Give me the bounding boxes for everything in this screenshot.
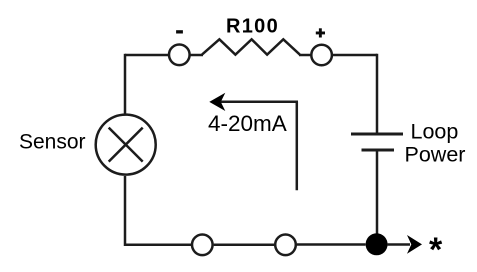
wire: resistor to terminal [299, 54, 311, 57]
svg-text:4-20mA: 4-20mA [208, 111, 287, 136]
svg-text:R100: R100 [226, 16, 279, 38]
wire: right vertical lower (battery to node) [376, 150, 379, 244]
node: junction dot [366, 233, 388, 255]
wire: right vertical upper (corner to battery) [376, 54, 379, 134]
wire: circle to resistor [190, 54, 203, 57]
wire: left vertical upper (sensor to top corner) [124, 54, 127, 114]
label * (asterisk) [429, 231, 443, 269]
label + (plus) [316, 28, 325, 37]
arrowhead: output (points right) [407, 235, 422, 254]
wire: top-left horizontal segment [125, 54, 168, 57]
battery: loop power short plate [362, 149, 395, 152]
wire: bottom left segment [125, 244, 191, 247]
wire: node to output arrow [387, 243, 410, 246]
sensor (circle with X) [96, 115, 156, 175]
wire: current arrow vertical segment [296, 102, 299, 191]
arrowhead: 4-20mA current direction (points left) [209, 93, 225, 111]
svg-text:*: * [429, 231, 443, 269]
wire: left vertical lower (corner to sensor) [124, 176, 127, 246]
label Loop Power [405, 120, 466, 167]
wire: terminal to top-right corner [333, 54, 377, 57]
resistor R100 [202, 39, 300, 54]
terminal circle (negative) [169, 45, 190, 66]
svg-text:Loop: Loop [411, 120, 459, 144]
terminal circle (bottom right) [275, 235, 296, 256]
label R100 [226, 16, 279, 38]
battery: loop power long plate [351, 133, 403, 136]
terminal circle (bottom left) [192, 235, 213, 256]
terminal circle (positive) [311, 45, 332, 66]
wire: current arrow horizontal segment [221, 100, 298, 103]
svg-text:Sensor: Sensor [19, 131, 86, 154]
svg-text:Power: Power [405, 142, 466, 166]
label 4-20mA [208, 111, 287, 136]
wire: bottom right segment (node to terminal) [297, 243, 366, 246]
label Sensor [19, 131, 86, 154]
wire: bottom middle segment [214, 244, 275, 247]
label - (minus) [176, 30, 183, 33]
